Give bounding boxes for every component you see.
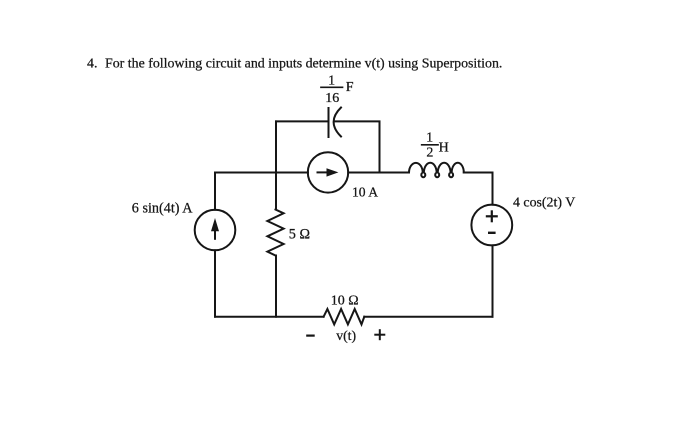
current source I1 6sin(4t) : arrow head xyxy=(211,218,219,231)
svg-text:10 Ω: 10 Ω xyxy=(331,294,359,309)
svg-text:5 Ω: 5 Ω xyxy=(289,227,310,243)
voltage source V1 : plus sign xyxy=(487,215,497,217)
current source I2 10A : circle xyxy=(308,152,348,192)
svg-text:1: 1 xyxy=(426,130,433,145)
svg-text:v(t): v(t) xyxy=(336,328,356,344)
voltage source V1 : minus sign xyxy=(489,232,494,234)
wire left vertical lower: 6sin source to bottom wire xyxy=(214,250,216,316)
inductor L 1/2 H xyxy=(409,163,464,177)
svg-text:1: 1 xyxy=(328,74,335,89)
svg-text:10 A: 10 A xyxy=(352,185,378,200)
svg-text:4 cos(2t) V: 4 cos(2t) V xyxy=(513,195,575,210)
svg-text:H: H xyxy=(439,140,449,155)
wire right vertical lower: voltage source to bottom wire xyxy=(492,245,494,316)
wire capacitor branch left xyxy=(276,120,329,122)
polarity plus of v(t) xyxy=(375,334,384,336)
wire top: 10A source to inductor xyxy=(348,172,409,174)
polarity minus of v(t) xyxy=(307,335,313,337)
resistor R1 5 ohm : vertical zigzag xyxy=(267,210,283,256)
fraction bar of 1/16 F xyxy=(321,86,343,88)
resistor R2 10 ohm : horizontal zigzag xyxy=(324,309,365,324)
wire left vertical upper: top wire corner down to 6sin source xyxy=(214,173,216,210)
current source I2 10A : arrow head xyxy=(327,168,339,176)
capacitor C 1/16 F : curved right plate xyxy=(334,108,341,137)
wire middle vertical upper: capacitor branch junction through top wire to 5 ohm resistor xyxy=(275,121,277,209)
svg-text:F: F xyxy=(346,80,354,95)
wire middle vertical lower: 5 ohm resistor to bottom wire xyxy=(275,256,277,317)
svg-text:For the following circuit and: For the following circuit and inputs det… xyxy=(105,57,502,72)
wire top-left horizontal: left corner to 10A source xyxy=(215,172,308,174)
current source I1 6sin(4t) : circle xyxy=(195,210,236,251)
wire capacitor branch right: from capacitor plate to corner down to top wire xyxy=(334,121,379,172)
voltage source V1 4cos(2t) : circle xyxy=(471,205,512,246)
wire bottom-right: 10 ohm resistor to right corner xyxy=(364,316,492,318)
wire top-right corner: inductor to right vertical down to voltage source xyxy=(464,173,493,205)
capacitor C 1/16 F : left plate xyxy=(328,108,330,137)
current source I2 10A : arrow shaft xyxy=(318,171,329,173)
wire bottom-left: left corner to 10 ohm resistor xyxy=(215,316,324,318)
svg-text:16: 16 xyxy=(325,91,339,106)
fraction bar of 1/2 H xyxy=(422,144,438,146)
current source I1 6sin(4t) : arrow shaft xyxy=(214,230,216,239)
svg-text:6 sin(4t) A: 6 sin(4t) A xyxy=(132,201,193,217)
svg-text:2: 2 xyxy=(426,146,433,161)
svg-text:4.: 4. xyxy=(87,57,97,72)
